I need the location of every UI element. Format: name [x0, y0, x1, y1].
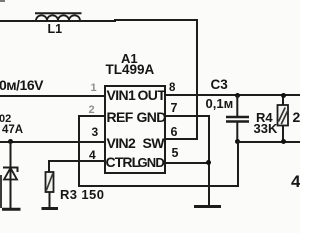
IC pin row VIN2 / SW: [107, 136, 136, 150]
pin number 6: [171, 126, 178, 139]
pin number 7: [171, 102, 178, 115]
inductor L1: [30, 8, 88, 23]
pin number 2: [89, 105, 95, 116]
label A1: [121, 52, 138, 65]
label TL499A: [106, 63, 155, 77]
wire pin5 GND stub: [166, 162, 210, 164]
wire top-left corner scan artifact: [0, 0, 5, 2]
label L1: [48, 23, 63, 36]
pin number 5: [172, 147, 179, 160]
node junction C3 bottom: [235, 139, 240, 144]
wire bottom rail C3/R4 to right edge: [237, 141, 300, 143]
IC pin row VIN1 / OUT: [107, 88, 136, 102]
wire pin7 GND stub: [166, 115, 210, 117]
ground bar for IC GND net: [194, 205, 221, 208]
wire pin8 OUT rail to right edge: [166, 94, 300, 96]
IC pin row REF / GND: [107, 110, 133, 124]
wire pin2 REF stub: [78, 115, 104, 117]
node junction zener to VIN2 wire: [8, 139, 13, 144]
label KC147A (clipped): [2, 125, 23, 137]
IC pin row CTRL / GND: [106, 155, 140, 169]
pin number 4: [89, 149, 96, 161]
label C3: [211, 78, 228, 92]
zener diode VD2: [1, 141, 21, 211]
resistor R3 vertical lead from CTRL wire: [48, 160, 50, 173]
resistor R4: [272, 94, 294, 144]
label R4: [256, 111, 273, 124]
pin number 1: [91, 83, 97, 94]
node junction R4 top: [281, 93, 286, 98]
pin number 3: [92, 126, 99, 138]
node junction pin5/pin7: [206, 160, 211, 165]
label clipped 2 at right edge: [293, 110, 301, 124]
pin number 8: [169, 83, 175, 95]
label clipped 4 at right edge: [291, 173, 300, 190]
wire feedback horizontal to C3 bottom net: [78, 185, 239, 187]
wire pin1 VIN1 from left edge: [0, 95, 104, 97]
node junction C3 top: [235, 93, 240, 98]
op-amp / regulator IC A1 box: [104, 85, 167, 174]
wire pin6 SW stub: [166, 138, 197, 140]
wire pin2 vertical down: [78, 115, 80, 187]
wire vertical from top rail down to SW pin net: [196, 19, 198, 140]
label C3 value 0,1м: [206, 97, 234, 110]
capacitor C3: [225, 95, 250, 143]
label C1 value 100м/16V (clipped): [0, 78, 43, 92]
label VD2 (clipped): [0, 114, 11, 125]
wire left edge artifact: [0, 175, 2, 208]
wire pin7 vertical down to ground: [208, 115, 210, 207]
node junction R4 bottom: [281, 139, 286, 144]
wire C3 bottom vertical down to feedback wire: [237, 141, 239, 187]
label R4 value 33K: [254, 122, 278, 135]
wire pin4 CTRL stub: [48, 160, 104, 162]
label R3 150: [60, 188, 104, 201]
wire top rail from left edge through L1 to corner: [0, 20, 116, 22]
resistor R3: [40, 171, 60, 211]
wire pin3 VIN2 from left edge: [0, 141, 104, 143]
